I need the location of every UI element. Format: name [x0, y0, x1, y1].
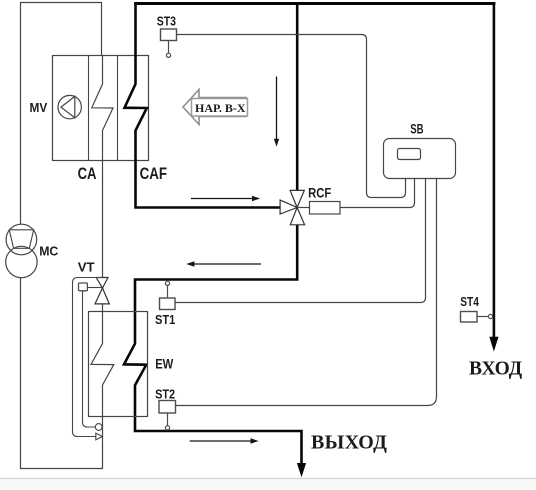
arrow right (outlet flow)	[190, 440, 251, 442]
sensor ST4	[461, 312, 478, 323]
svg-text:ST4: ST4	[460, 295, 479, 309]
svg-text:ВЫХОД: ВЫХОД	[311, 432, 387, 454]
svg-text:EW: EW	[155, 356, 174, 372]
svg-text:ST2: ST2	[155, 387, 175, 401]
coil CA (thin zigzag)	[92, 56, 113, 161]
wire: pipe from coil box to VT valve	[102, 161, 104, 278]
bottom page strip	[0, 480, 536, 490]
arrow left (flow above return duct)	[194, 263, 261, 265]
junction arrow into pipe	[96, 433, 103, 440]
wire: VT actuator drop	[83, 291, 96, 427]
sensor ST1	[165, 281, 169, 285]
svg-text:CAF: CAF	[140, 164, 168, 183]
thick duct drop + coil CAF (thick zigzag) to RCF	[125, 2, 281, 207]
block arrow НАР. В-Х	[183, 90, 246, 125]
air handler box CA/CAF	[53, 56, 149, 161]
divider right	[117, 56, 119, 161]
thick duct: inlet line right side	[493, 2, 496, 338]
heater box EW	[89, 312, 148, 417]
svg-text:ВХОД: ВХОД	[469, 359, 523, 380]
svg-text:RCF: RCF	[308, 185, 331, 200]
svg-text:MC: MC	[39, 244, 59, 259]
coil EW (thin zigzag)	[91, 312, 114, 417]
arrow down (air flow)	[276, 77, 278, 140]
valve RCF (3-way)	[290, 190, 304, 207]
wire: ST1 to SB	[175, 179, 426, 303]
thick top duct line	[134, 2, 495, 5]
wire: ST3 to SB	[177, 35, 406, 198]
wire: VT bypass loop	[73, 278, 103, 437]
svg-text:НАР. В-Х: НАР. В-Х	[195, 101, 246, 115]
sensor ST3	[161, 29, 177, 41]
svg-text:ST3: ST3	[157, 14, 176, 28]
svg-text:ST1: ST1	[155, 313, 175, 327]
wire: pipe from VT valve to EW box	[102, 304, 104, 312]
junction circle on pipe	[95, 424, 102, 431]
wire: ST2 to SB	[176, 179, 437, 406]
arrow right (flow above duct)	[191, 198, 253, 200]
inlet arrowhead	[489, 337, 498, 352]
actuator RCF	[297, 207, 309, 209]
fan MV	[58, 95, 81, 118]
svg-text:SB: SB	[410, 122, 423, 137]
svg-text:VT: VT	[78, 260, 95, 275]
svg-text:MV: MV	[30, 100, 48, 115]
wire: MC supply loop (left thin rectangle)	[21, 3, 103, 469]
motor MC	[6, 246, 37, 277]
sensor ST2	[159, 401, 176, 414]
valve VT (2-way)	[96, 278, 108, 289]
thick duct: RCF down, left, through EW coil, to outlet	[124, 225, 302, 464]
divider left	[88, 56, 90, 161]
controller SB	[384, 139, 456, 179]
wire: RCF actuator to SB	[340, 179, 415, 208]
actuator VT	[79, 283, 88, 291]
svg-text:CA: CA	[78, 164, 97, 183]
outlet arrowhead	[297, 463, 306, 477]
thick duct: top to RCF valve	[296, 2, 299, 190]
